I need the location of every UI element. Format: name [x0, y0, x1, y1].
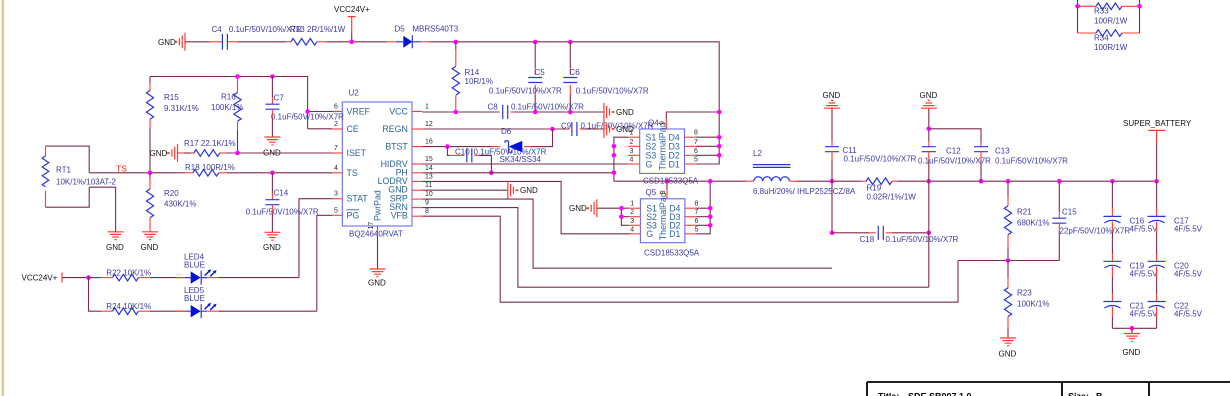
svg-text:GND: GND [823, 91, 841, 100]
ground (U2 GND pin) [508, 181, 538, 199]
pin stubs Q4 left 1,2,3,4 [628, 130, 640, 164]
resistor R22 [101, 269, 151, 281]
svg-text:SUPER_BATTERY: SUPER_BATTERY [1123, 119, 1192, 128]
wire TS row to pin [227, 172, 332, 174]
svg-text:2R/1%/1W: 2R/1%/1W [307, 25, 346, 34]
node C6 bottom [568, 110, 573, 115]
svg-text:R15: R15 [164, 93, 179, 102]
resistor R14 [452, 42, 493, 110]
svg-text:5: 5 [334, 207, 338, 214]
svg-text:VFB: VFB [391, 211, 408, 221]
node Q5 S2 [619, 214, 624, 219]
capacitor C22 [1148, 277, 1203, 329]
svg-text:0.1uF/50V/10%/X7R: 0.1uF/50V/10%/X7R [489, 86, 562, 95]
diode D5 [387, 25, 459, 49]
svg-text:REGN: REGN [382, 124, 407, 134]
svg-text:BLUE: BLUE [184, 294, 205, 303]
resistor R34 [1078, 30, 1140, 52]
wire Q4 source bus [614, 137, 628, 181]
node C5 top [533, 40, 538, 45]
capacitor C7 [265, 77, 344, 138]
node Q4 S2 [612, 144, 617, 149]
svg-text:U2: U2 [349, 89, 360, 98]
thermistor RT1 [42, 146, 116, 232]
svg-text:GND: GND [1123, 348, 1141, 357]
svg-text:C9: C9 [561, 122, 572, 131]
pin 4 TS [332, 165, 358, 178]
svg-text:0.02R/1%/1W: 0.02R/1%/1W [867, 193, 917, 202]
wire SRP stair [422, 199, 832, 268]
capacitor C4 [210, 25, 302, 50]
resistor R24 [101, 302, 151, 314]
ground (C14) [263, 232, 281, 252]
wire CE feed [308, 128, 333, 130]
svg-text:4: 4 [334, 165, 338, 172]
svg-text:100K/1%: 100K/1% [211, 103, 243, 112]
wire Q5 thermal pad to switch row [666, 181, 668, 199]
svg-text:ThermalPad: ThermalPad [658, 122, 668, 170]
resistor R17 [178, 139, 236, 157]
ground (R17 left) [150, 144, 178, 162]
resistor R19 [861, 178, 916, 202]
svg-text:C14: C14 [274, 188, 289, 197]
svg-text:0.1uF/50V/10%/X7R: 0.1uF/50V/10%/X7R [271, 113, 344, 122]
node C15 top [1057, 179, 1062, 184]
ground (C12 top) [920, 91, 938, 108]
svg-text:GND: GND [920, 91, 938, 100]
ground (PwrPad) [368, 269, 386, 288]
node R21 bottom [1006, 258, 1011, 263]
capacitor C14 [246, 173, 319, 233]
svg-text:PG: PG [347, 210, 360, 220]
svg-text:8: 8 [425, 208, 429, 215]
resistor R13 [286, 25, 345, 45]
transistor Q5 CSD18533Q5A [640, 188, 699, 258]
ground (REGN decoupling) [604, 120, 634, 138]
svg-text:C12: C12 [946, 147, 961, 156]
svg-text:R21: R21 [1017, 208, 1032, 217]
capacitor C12 [918, 108, 991, 181]
svg-text:0.1uF/50V/10%/X7R: 0.1uF/50V/10%/X7R [246, 208, 319, 217]
wire (C8 to GND) [515, 111, 604, 113]
node C7 top [270, 74, 275, 79]
svg-text:R17 22.1K/1%: R17 22.1K/1% [184, 139, 236, 148]
svg-text:2: 2 [630, 139, 634, 146]
svg-text:4: 4 [630, 157, 634, 164]
pin 7 ISET [332, 145, 366, 158]
node Q5 drain riser [708, 179, 713, 184]
node SRN/C12 [927, 179, 932, 184]
svg-text:7: 7 [695, 209, 699, 216]
node Q5 D4 [708, 206, 713, 211]
resistor R21 [1004, 181, 1049, 260]
capacitor C5 [489, 42, 562, 112]
svg-text:6.8uH/20%/ IHLP2525CZ/8A: 6.8uH/20%/ IHLP2525CZ/8A [753, 187, 856, 196]
node Q4 D4 [717, 135, 722, 140]
wire STAT to LED4 [299, 199, 332, 278]
node VCC/R14 bottom [454, 110, 459, 115]
pin 17 PwrPad [368, 190, 383, 269]
node supercap left column [1110, 179, 1115, 184]
node C18 left [830, 231, 835, 236]
svg-text:D5: D5 [395, 25, 406, 34]
wire TS row [89, 172, 178, 174]
svg-text:6: 6 [694, 148, 698, 155]
pin stubs Q5 left 1,2,3,4 [629, 201, 641, 234]
pin 3 STAT [332, 191, 368, 204]
node Q5 S1 [619, 206, 624, 211]
node BTST/C10 [445, 144, 450, 149]
ground (RT1) [106, 232, 124, 252]
title block frame [867, 382, 1230, 396]
svg-text:4F/5.5V: 4F/5.5V [1130, 269, 1159, 278]
svg-text:VCC24V+: VCC24V+ [334, 5, 370, 14]
svg-text:R33: R33 [1094, 7, 1109, 16]
svg-text:C7: C7 [274, 93, 285, 102]
node C10/PH [489, 171, 494, 176]
svg-text:R23: R23 [1017, 288, 1032, 297]
pin 5 PG (active low) [332, 207, 359, 220]
svg-text:R22 10K/1%: R22 10K/1% [106, 269, 151, 278]
LED5 [176, 286, 219, 318]
node C12/C13 gnd tie [927, 127, 932, 132]
svg-text:16: 16 [425, 139, 433, 146]
svg-text:2: 2 [334, 121, 338, 128]
wire Q5 source bus [597, 208, 629, 225]
pin 13 LODRV [378, 173, 433, 186]
svg-text:0.1uF/50V/10%/X7R: 0.1uF/50V/10%/X7R [844, 155, 917, 164]
wire down to LED5 row [89, 278, 102, 312]
svg-text:3: 3 [334, 191, 338, 198]
pin 2 CE [332, 121, 359, 134]
inductor L2 [747, 149, 856, 196]
wire VREF feed [308, 111, 333, 113]
wire SRN riser [928, 181, 930, 287]
power port VCC24V+ (left) [22, 273, 89, 283]
svg-text:680K/1%: 680K/1% [1017, 219, 1049, 228]
svg-text:1: 1 [630, 130, 634, 137]
wire REGN row [422, 128, 566, 130]
pin 8 VFB [391, 208, 429, 221]
wire VCC row from U2 pin1 [422, 111, 497, 113]
node Q4 pad/drain [717, 110, 722, 115]
svg-text:C10: C10 [455, 147, 470, 156]
wire BTST row [422, 146, 492, 148]
wire LODRV to Q5 gate [422, 181, 630, 233]
svg-text:0.1uF/50V/10%/X7R: 0.1uF/50V/10%/X7R [886, 235, 959, 244]
node Q4 D2 [717, 153, 722, 158]
node C18 right / SRN riser [927, 231, 932, 236]
ground (C4 left) [158, 33, 185, 51]
wire SRN stair [422, 208, 929, 288]
svg-text:0.1uF/50V/10%/X7R: 0.1uF/50V/10%/X7R [511, 102, 584, 111]
svg-text:R13: R13 [290, 25, 305, 34]
ground (C7) [263, 137, 281, 158]
svg-text:10R/1%: 10R/1% [465, 77, 493, 86]
capacitor C18 [832, 226, 959, 244]
wire BTST to C10 jog [447, 147, 450, 156]
wire LED5 to PG riser [219, 310, 317, 312]
capacitor C15 [1052, 181, 1130, 260]
svg-text:Size:: Size: [1068, 392, 1089, 396]
svg-text:ThermalPad: ThermalPad [658, 192, 668, 240]
svg-text:GND: GND [569, 204, 587, 213]
svg-text:VREF: VREF [347, 107, 371, 117]
svg-text:15: 15 [425, 156, 433, 163]
node C6 top [568, 40, 573, 45]
pin stubs Q4 right 8,7,6,5 [685, 130, 699, 164]
svg-text:G: G [646, 229, 653, 239]
svg-text:1: 1 [425, 104, 429, 111]
wire LED4 to STAT riser [219, 277, 299, 279]
pin 14 PH [396, 165, 433, 178]
resistor R16 [211, 77, 243, 154]
svg-text:STAT: STAT [347, 194, 369, 204]
svg-text:SK34/SS34: SK34/SS34 [500, 155, 542, 164]
svg-text:Title:: Title: [878, 392, 899, 396]
svg-text:RT1: RT1 [56, 165, 72, 174]
pin 9 SRN [389, 200, 429, 213]
svg-text:6: 6 [334, 104, 338, 111]
wire feedback node row [958, 260, 1059, 262]
svg-text:2: 2 [630, 209, 634, 216]
svg-text:R20: R20 [164, 189, 179, 198]
svg-text:9: 9 [660, 121, 667, 125]
svg-text:GND: GND [999, 350, 1017, 359]
svg-text:12: 12 [425, 121, 433, 128]
capacitor C13 [974, 143, 1068, 181]
svg-text:100K/1%: 100K/1% [1017, 299, 1049, 308]
node Q4 source/PH [612, 171, 617, 176]
node supercap right column / battery [1154, 179, 1159, 184]
ground (supercaps) [1123, 328, 1141, 357]
wire (rail to Q4 drain corner) [430, 42, 719, 137]
svg-text:CE: CE [347, 124, 359, 134]
wire GND pin row [422, 189, 508, 191]
svg-text:17: 17 [368, 222, 375, 230]
svg-text:0.1uF/50V/10%/X7R: 0.1uF/50V/10%/X7R [995, 157, 1068, 166]
wire [326, 41, 387, 43]
svg-text:9: 9 [425, 200, 429, 207]
capacitor C19 [1103, 232, 1158, 278]
svg-text:GND: GND [141, 243, 159, 252]
LED4 [176, 253, 219, 285]
wire VREF top rail [150, 77, 308, 129]
svg-text:9: 9 [660, 190, 667, 194]
op-amp U2 BQ24640RVAT body [342, 102, 412, 226]
power port VCC24V+ [334, 5, 370, 42]
resistor R20 [146, 173, 196, 232]
svg-text:GND: GND [368, 279, 386, 288]
node C14 top [270, 171, 275, 176]
svg-text:22pF/50V/10%/X7R: 22pF/50V/10%/X7R [1060, 227, 1131, 236]
wire ISET row [226, 152, 332, 154]
svg-text:3: 3 [630, 218, 634, 225]
svg-text:VCC: VCC [389, 107, 408, 117]
svg-text:7: 7 [694, 139, 698, 146]
svg-text:8: 8 [695, 201, 699, 208]
svg-text:GND: GND [616, 108, 634, 117]
svg-text:C13: C13 [995, 147, 1010, 156]
wire R19 to battery rail [898, 180, 1157, 182]
node Q5 D2 [708, 223, 713, 228]
svg-text:VCC24V+: VCC24V+ [22, 274, 58, 283]
resistor R18 [179, 163, 235, 176]
svg-text:D1: D1 [669, 159, 680, 169]
wire Q4 drain bus [696, 137, 719, 164]
ground (R20) [141, 232, 159, 252]
svg-text:TS: TS [347, 168, 358, 178]
svg-text:C4: C4 [212, 25, 223, 34]
svg-text:G: G [646, 159, 653, 169]
node Q5 D3 [708, 214, 713, 219]
node Q4 D3 [717, 144, 722, 149]
pin 15 HIDRV [381, 156, 433, 169]
capacitor C8 [488, 102, 585, 119]
svg-text:0.1uF/50V/10%/X7R: 0.1uF/50V/10%/X7R [918, 157, 991, 166]
svg-text:0.1uF/50V/10%/X7R: 0.1uF/50V/10%/X7R [576, 86, 649, 95]
svg-text:C18: C18 [860, 235, 875, 244]
svg-text:GND: GND [106, 243, 124, 252]
svg-text:D1: D1 [669, 229, 680, 239]
wire C10 to PH [480, 155, 491, 172]
wire D6 anode to REGN [531, 129, 553, 147]
node D6 anode riser [550, 127, 555, 132]
svg-text:R34: R34 [1094, 33, 1109, 42]
node supercap gnd [1130, 326, 1135, 331]
node SRP/C11 [830, 179, 835, 184]
wire Q4 thermal pad to drain [666, 112, 719, 129]
capacitor C6 [563, 42, 649, 112]
svg-text:5: 5 [695, 226, 699, 233]
svg-text:BTST: BTST [385, 142, 408, 152]
wire [150, 277, 185, 279]
pin 1 VCC [389, 104, 429, 117]
capacitor C9 [561, 122, 654, 137]
pin 16 BTST [385, 139, 433, 152]
capacitor C16 [1103, 181, 1158, 233]
resistor R33 [1078, 3, 1140, 26]
node VREF junction [305, 109, 310, 114]
node R33 left [1075, 4, 1080, 9]
svg-text:L2: L2 [753, 149, 762, 158]
node C13 bottom [979, 179, 984, 184]
svg-text:C15: C15 [1062, 208, 1077, 217]
node R16 top [235, 74, 240, 79]
wire PG to LED5 [317, 215, 333, 311]
svg-text:C5: C5 [535, 68, 546, 77]
svg-text:4F/5.5V: 4F/5.5V [1130, 224, 1159, 233]
wire [185, 41, 210, 43]
svg-text:4F/5.5V: 4F/5.5V [1130, 310, 1159, 319]
svg-text:10: 10 [425, 191, 433, 198]
svg-text:GND: GND [150, 149, 168, 158]
svg-text:8: 8 [694, 130, 698, 137]
capacitor C11 [825, 108, 917, 181]
wire L2 to R19 [797, 180, 861, 182]
ground (Q5 source) [569, 199, 597, 217]
power port SUPER_BATTERY [1123, 119, 1192, 181]
svg-text:Q4: Q4 [648, 119, 659, 128]
svg-text:14: 14 [425, 165, 433, 172]
wire [238, 41, 287, 43]
node Q5 pad/switch [665, 179, 670, 184]
svg-text:10K/1%/103AT-2: 10K/1%/103AT-2 [56, 177, 116, 186]
node R21 top [1006, 179, 1011, 184]
svg-text:R19: R19 [867, 184, 882, 193]
svg-text:9.31K/1%: 9.31K/1% [164, 104, 199, 113]
svg-text:BLUE: BLUE [184, 260, 205, 269]
svg-text:3: 3 [630, 148, 634, 155]
svg-text:GND: GND [263, 243, 281, 252]
node C5 bottom [533, 110, 538, 115]
ground (R23) [999, 338, 1017, 359]
wire switch row to L2 [614, 180, 747, 182]
svg-text:1: 1 [630, 201, 634, 208]
svg-text:Q5: Q5 [646, 188, 657, 197]
pin 12 REGN [382, 121, 433, 134]
node R14 top [454, 40, 459, 45]
capacitor C20 [1148, 232, 1203, 278]
svg-text:C6: C6 [570, 68, 581, 77]
wire R33/R34 parallel frame [1078, 0, 1140, 33]
svg-text:4F/5.5V: 4F/5.5V [1174, 224, 1203, 233]
svg-text:430K/1%: 430K/1% [164, 200, 196, 209]
node TS / R15-R20 [148, 171, 153, 176]
svg-text:4: 4 [630, 226, 634, 233]
wire HIDRV row to Q4 gate [422, 163, 629, 165]
svg-text:SDE SB007 1.0: SDE SB007 1.0 [908, 392, 972, 396]
svg-text:TS: TS [116, 163, 127, 173]
svg-text:11: 11 [425, 182, 432, 189]
wire to R22 [89, 277, 102, 279]
node R16 bottom / ISET [235, 151, 240, 156]
svg-text:R24 10K/1%: R24 10K/1% [106, 302, 151, 311]
wire Q5 drain bus [697, 181, 711, 234]
svg-text:PwrPad: PwrPad [373, 190, 383, 221]
pin 6 VREF [332, 104, 370, 117]
svg-text:100R/1W: 100R/1W [1094, 17, 1128, 26]
node LED feed split [86, 275, 91, 280]
capacitor C10 [450, 147, 547, 162]
sheet margin bar [2, 0, 5, 396]
svg-text:R16: R16 [221, 92, 236, 101]
resistor R15 [146, 77, 198, 173]
capacitor C17 [1148, 181, 1203, 233]
svg-text:GND: GND [520, 186, 538, 195]
node VCC24V (junction) [349, 40, 354, 45]
svg-text:BQ24640RVAT: BQ24640RVAT [349, 230, 403, 239]
svg-text:B: B [1096, 392, 1103, 396]
wire (C9 to GND) [584, 128, 604, 130]
resistor R23 [1004, 261, 1049, 339]
svg-text:6: 6 [695, 218, 699, 225]
svg-text:4F/5.5V: 4F/5.5V [1174, 269, 1203, 278]
svg-text:C8: C8 [488, 102, 499, 111]
svg-text:100R/1W: 100R/1W [1094, 43, 1128, 52]
ground (C11 top) [823, 91, 841, 108]
svg-text:D6: D6 [501, 127, 512, 136]
wire SRP drop (C18 branch) [831, 181, 833, 233]
node R33 right [1137, 4, 1142, 9]
svg-text:R14: R14 [465, 68, 480, 77]
svg-text:5: 5 [694, 157, 698, 164]
pin 10 SRP [390, 191, 433, 204]
svg-text:C11: C11 [843, 146, 858, 155]
svg-text:13: 13 [425, 173, 433, 180]
svg-text:7: 7 [334, 145, 338, 152]
svg-text:ISET: ISET [347, 148, 367, 158]
